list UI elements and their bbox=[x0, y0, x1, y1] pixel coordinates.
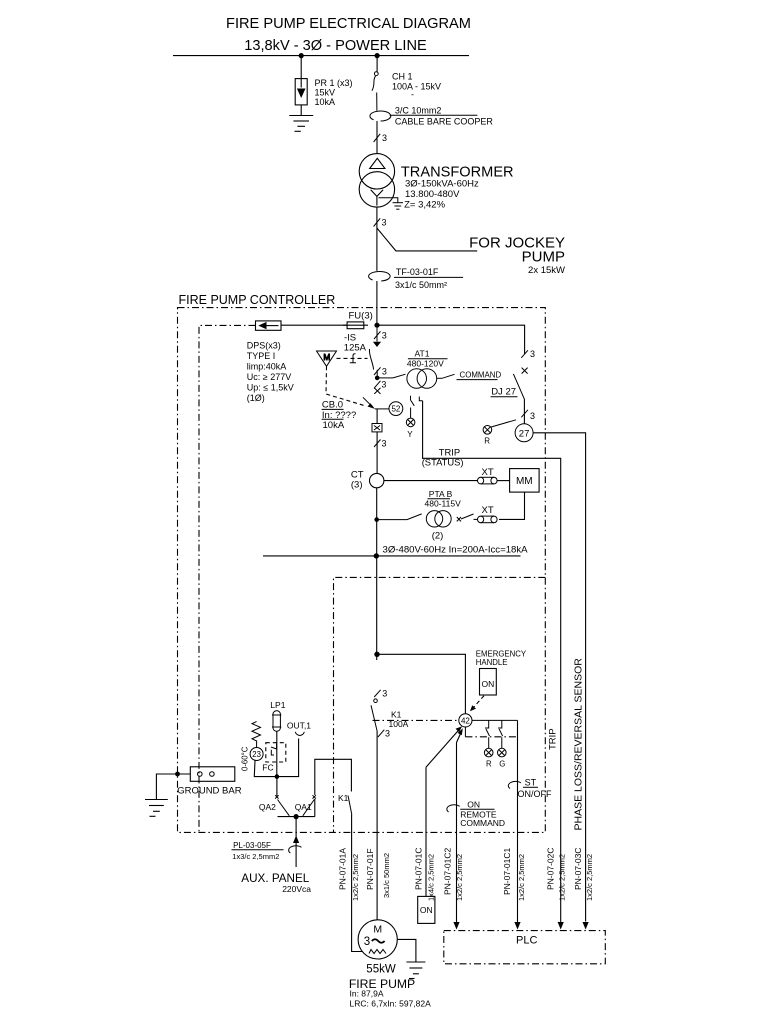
transformer T1 delta-wye bbox=[359, 154, 394, 208]
contact K1 aux bbox=[348, 796, 352, 815]
label: TRANSFORMER specs bbox=[401, 165, 514, 211]
node: PR1 tap junction bbox=[299, 53, 304, 58]
wire: 13.8kV power line bbox=[173, 55, 469, 57]
cable label: PN-07-01F 3x1/c 50mm2 bbox=[365, 848, 391, 898]
cable label: PN-07-01C 1x4/c 2,5mm2 bbox=[414, 847, 436, 901]
wire: jockey pump branch bbox=[377, 228, 477, 251]
label: DPS(x3) TYPE I specs bbox=[247, 341, 294, 404]
node: PTA tap bbox=[374, 517, 379, 522]
trip hook f bbox=[350, 354, 356, 363]
svg-text:52: 52 bbox=[391, 405, 400, 414]
phase tick 3 bbox=[374, 218, 387, 228]
bus 480V bbox=[263, 555, 521, 557]
svg-text:3: 3 bbox=[382, 331, 387, 341]
node: bus junction bbox=[374, 553, 379, 558]
wire: CT to XT bbox=[384, 480, 478, 482]
svg-text:1x2/c 2,5mm2: 1x2/c 2,5mm2 bbox=[351, 854, 360, 901]
svg-text:K1: K1 bbox=[338, 793, 349, 803]
svg-text:220Vca: 220Vca bbox=[282, 884, 311, 894]
svg-text:3: 3 bbox=[385, 729, 390, 739]
disconnect switch CH1 bbox=[372, 72, 378, 111]
svg-text:R: R bbox=[486, 760, 492, 769]
svg-text:PN-07-01C2: PN-07-01C2 bbox=[443, 847, 453, 895]
svg-text:3x1/c 50mm²: 3x1/c 50mm² bbox=[395, 280, 447, 290]
contact QA2 bbox=[275, 795, 289, 816]
svg-text:27: 27 bbox=[519, 428, 530, 439]
label: EMERGENCY HANDLE bbox=[476, 650, 527, 668]
node: CH1 feeder junction bbox=[375, 53, 380, 58]
phase tick 3 (K1) bbox=[374, 689, 387, 699]
svg-text:XT: XT bbox=[482, 467, 494, 478]
svg-text:FU(3): FU(3) bbox=[349, 311, 373, 322]
svg-text:3/C 10mm2: 3/C 10mm2 bbox=[395, 106, 442, 116]
svg-text:CH 1: CH 1 bbox=[392, 72, 413, 82]
label: DJ 27 bbox=[491, 387, 518, 398]
svg-text:ON: ON bbox=[482, 679, 495, 689]
fuse FU(3) bbox=[343, 322, 368, 329]
svg-text:3x1/c 50mm2: 3x1/c 50mm2 bbox=[382, 853, 391, 898]
svg-text:QA2: QA2 bbox=[259, 802, 276, 812]
wire+blade: AT1 secondary to COMMAND bbox=[437, 374, 498, 379]
svg-text:3: 3 bbox=[382, 133, 387, 143]
svg-text:FIRE PUMP CONTROLLER: FIRE PUMP CONTROLLER bbox=[179, 293, 336, 307]
svg-text:1x2/c 2,5mm2: 1x2/c 2,5mm2 bbox=[517, 854, 526, 901]
svg-text:(3): (3) bbox=[351, 480, 363, 491]
relay 52 bbox=[382, 402, 403, 416]
svg-text:ST: ST bbox=[525, 777, 537, 787]
contact bracket + TRIP status line bbox=[419, 397, 422, 401]
mech linkage dashed to CB.0 bbox=[326, 366, 364, 405]
arrow: line F into PLC bbox=[558, 922, 564, 930]
svg-text:PN-07-01C1: PN-07-01C1 bbox=[502, 847, 512, 895]
wire: aux panel feed bbox=[295, 817, 297, 867]
mech linkage dashed to -IS with trip hook bbox=[337, 357, 368, 359]
svg-text:3Ø-480V-60Hz In=200A-Icc=18kA: 3Ø-480V-60Hz In=200A-Icc=18kA bbox=[383, 545, 529, 556]
wire: ST line to PLC bbox=[517, 720, 519, 928]
label: 3/C 10mm2 CABLE BARE COOPER bbox=[390, 106, 494, 127]
label: FOR JOCKEY PUMP 2x 15kW bbox=[469, 235, 565, 277]
cable label: PN-07-01C2 1x2/c 2,5mm2 bbox=[443, 847, 464, 901]
wire: MM bottom to PTA circuit bbox=[499, 492, 525, 519]
contact QA1 bbox=[303, 795, 316, 816]
emergency handle ON box bbox=[480, 669, 497, 696]
label: TRIP (STATUS) bbox=[422, 446, 464, 467]
svg-text:PL-03-05F: PL-03-05F bbox=[233, 841, 271, 850]
terminal arc OUT1 bbox=[295, 732, 304, 736]
svg-text:15kV: 15kV bbox=[315, 88, 336, 98]
label: PTA B 480-115V (2) bbox=[425, 489, 462, 542]
svg-text:PHASE LOSS/REVERSAL SENSOR: PHASE LOSS/REVERSAL SENSOR bbox=[573, 658, 585, 831]
mech interlock dash-dot K1 to 42 bbox=[373, 719, 459, 721]
wire: 42 aux rail bbox=[472, 719, 518, 721]
label: AUX. PANEL 220Vca bbox=[241, 872, 311, 894]
ground bar box bbox=[190, 767, 235, 782]
breaker blade DJ27 bbox=[513, 374, 524, 399]
svg-text:1x2/c 2,5mm2: 1x2/c 2,5mm2 bbox=[558, 854, 567, 901]
fuse LP1 bbox=[272, 711, 281, 731]
phase tick 3 (DJ27) bbox=[521, 349, 535, 359]
svg-text:OUT,1: OUT,1 bbox=[287, 721, 311, 731]
svg-text:ON: ON bbox=[467, 799, 480, 809]
transformer PTA B 480-115V bbox=[426, 511, 451, 527]
node: QA rail junction bbox=[294, 814, 299, 819]
wire: transformer to controller bbox=[376, 207, 378, 271]
contact X: DJ27 bbox=[522, 368, 528, 374]
cable label: PN-07-01A 1x2/c 2,5mm2 bbox=[337, 848, 360, 901]
node: K1 feeder junction bbox=[374, 652, 379, 657]
svg-text:13.800-480V: 13.800-480V bbox=[405, 189, 460, 200]
svg-text:10kA: 10kA bbox=[323, 420, 345, 431]
node: FU junction on main bbox=[374, 323, 379, 328]
cable label: PN-07-01C1 1x2/c 2,5mm2 bbox=[502, 847, 526, 901]
wire: K1 coil rail bbox=[315, 759, 352, 816]
svg-text:PN-07-01C: PN-07-01C bbox=[414, 847, 424, 890]
cable label: PN-07-03C 1x2/c 2,5mm2 bbox=[573, 847, 594, 901]
surge arrester PR1 (x3) bbox=[295, 79, 307, 105]
node: AT1 tap bbox=[375, 376, 380, 381]
svg-text:10kA: 10kA bbox=[315, 97, 336, 107]
svg-text:ON: ON bbox=[420, 905, 433, 915]
svg-text:M: M bbox=[373, 924, 382, 936]
svg-text:3: 3 bbox=[364, 936, 370, 948]
x-tick + blade: PTA secondary bbox=[457, 514, 478, 521]
label: K1 100A bbox=[389, 710, 409, 730]
svg-text:1x2/c 2,5mm2: 1x2/c 2,5mm2 bbox=[585, 854, 594, 901]
terminal XT (metering) bbox=[478, 477, 498, 484]
surge protector DPS(x3) bbox=[256, 321, 282, 330]
PLC box (dash-dot) bbox=[444, 931, 606, 964]
arrow: up from aux panel bbox=[293, 836, 299, 844]
terminal XT (PTA) bbox=[478, 516, 498, 523]
svg-text:limp:40kA: limp:40kA bbox=[247, 362, 287, 372]
mech dash-dot under 42 bbox=[464, 727, 466, 737]
phase tick 3 bbox=[374, 439, 387, 449]
svg-text:PN-07-02C: PN-07-02C bbox=[545, 847, 555, 890]
wire: into controller bbox=[376, 281, 378, 325]
svg-text:(2): (2) bbox=[432, 531, 444, 542]
phase tick 3 bbox=[374, 331, 387, 341]
svg-text:125A: 125A bbox=[344, 343, 367, 354]
svg-text:AT1: AT1 bbox=[415, 349, 430, 359]
wire: main to motor bbox=[376, 731, 378, 920]
wire+blade: AT1 primary bbox=[377, 374, 405, 378]
heater element (zigzag) bbox=[252, 722, 261, 748]
cable mark on ST line bbox=[508, 781, 521, 788]
svg-text:COMMAND: COMMAND bbox=[460, 818, 505, 828]
dashed link: handle to 42 bbox=[470, 696, 484, 712]
svg-text:PUMP: PUMP bbox=[522, 249, 565, 266]
svg-text:XT: XT bbox=[482, 505, 494, 516]
svg-text:3: 3 bbox=[530, 411, 535, 421]
controller enclosure box (dash-dot) bbox=[178, 308, 546, 833]
arrow: line D into PLC bbox=[453, 922, 459, 930]
contactor K1 100A bbox=[371, 699, 377, 731]
wire: CT to bus bbox=[376, 488, 378, 660]
cable mark on aux line bbox=[289, 846, 302, 853]
svg-text:3: 3 bbox=[382, 439, 387, 449]
svg-text:1x2/c 2,5mm2: 1x2/c 2,5mm2 bbox=[455, 854, 464, 901]
svg-text:0-60°C: 0-60°C bbox=[241, 746, 250, 771]
svg-text:R: R bbox=[484, 437, 490, 446]
wire: trip unit to CT bbox=[376, 409, 378, 424]
svg-text:MM: MM bbox=[516, 476, 533, 487]
trip unit box on main bbox=[372, 424, 382, 432]
ground: transformer neutral bbox=[379, 198, 404, 209]
wire: QA rail bbox=[278, 816, 315, 818]
wire+blade: PTA primary bbox=[377, 514, 422, 520]
wire: DJ27 to relay 27 bbox=[523, 399, 525, 424]
aux contact drops + lamps R G bbox=[484, 720, 506, 756]
svg-text:3Ø-150kVA-60Hz: 3Ø-150kVA-60Hz bbox=[405, 178, 479, 189]
svg-text:FC: FC bbox=[262, 763, 273, 773]
svg-text:LP1: LP1 bbox=[270, 700, 285, 710]
phase tick 3 bbox=[378, 729, 390, 739]
phase tick 3 bbox=[374, 367, 387, 377]
relay 42 bbox=[459, 714, 472, 727]
motor M 3~ fire pump bbox=[358, 920, 397, 959]
wire: main drop to CH1 bbox=[376, 56, 378, 72]
label: 55kW FIRE PUMP ratings bbox=[349, 964, 431, 1009]
svg-text:PTA B: PTA B bbox=[429, 489, 453, 499]
contact X: CB.0 upper bbox=[374, 388, 380, 394]
svg-text:G: G bbox=[499, 760, 505, 769]
svg-text:PLC: PLC bbox=[516, 935, 537, 947]
svg-text:GROUND BAR: GROUND BAR bbox=[177, 786, 242, 797]
svg-text:COMMAND: COMMAND bbox=[460, 371, 502, 380]
ground: PR1 earth bbox=[289, 116, 313, 132]
label: -IS 125A bbox=[344, 333, 367, 354]
breaker blade CB.0 with arrow bbox=[363, 397, 382, 409]
svg-text:2x 15kW: 2x 15kW bbox=[528, 265, 565, 276]
flow contact FC dashed box bbox=[266, 743, 286, 762]
cable symbol: TF-03-01F bbox=[369, 271, 391, 281]
svg-text:23: 23 bbox=[252, 750, 261, 759]
thermostat 23 bbox=[250, 748, 263, 761]
wire: XT to MM bbox=[497, 480, 510, 482]
svg-text:CABLE BARE COOPER: CABLE BARE COOPER bbox=[395, 116, 494, 126]
svg-text:M: M bbox=[323, 353, 330, 362]
svg-text:TRIP: TRIP bbox=[548, 728, 559, 750]
wire: K1 aux down to motor heater bbox=[352, 815, 363, 952]
arrow: line E into PLC bbox=[514, 922, 520, 930]
svg-text:480-115V: 480-115V bbox=[425, 499, 462, 509]
svg-text:Z= 3,42%: Z= 3,42% bbox=[404, 200, 445, 211]
aux contact + lamp Y bbox=[406, 396, 415, 427]
label: TF-03-01F 3x1/c 50mm2 bbox=[394, 267, 463, 290]
cable label: PN-07-02C 1x2/c 2,5mm2 bbox=[545, 847, 566, 901]
wire: DPS to FU bbox=[281, 324, 347, 326]
label: PL-03-05F 1x3/c 2,5mm2 bbox=[232, 841, 284, 861]
inner boundary (dash-dot L) bbox=[199, 325, 256, 832]
svg-text:(1Ø): (1Ø) bbox=[247, 393, 265, 403]
isolator -IS bbox=[369, 328, 381, 376]
power section box (dash-dot) bbox=[334, 577, 546, 832]
wire: junction to relay 42 bbox=[377, 654, 465, 714]
wire: PLC command line D to 42 (arrow) bbox=[457, 728, 463, 928]
cable symbol: 3/C 10mm2 bbox=[370, 111, 391, 121]
svg-text:3: 3 bbox=[382, 367, 387, 377]
motor operator M triangle bbox=[317, 351, 337, 366]
cable mark on remote line bbox=[447, 805, 460, 812]
svg-text:PN-07-03C: PN-07-03C bbox=[573, 847, 583, 890]
svg-text:PN-07-01F: PN-07-01F bbox=[365, 848, 375, 890]
svg-text:Y: Y bbox=[407, 430, 413, 439]
svg-text:DPS(x3): DPS(x3) bbox=[247, 341, 281, 351]
wire: PR1 to ground bbox=[300, 105, 302, 116]
meter MM box bbox=[510, 469, 539, 493]
wire: rail to QA2 bbox=[276, 777, 278, 797]
phase tick 3 bbox=[374, 380, 386, 390]
svg-text:3: 3 bbox=[530, 349, 535, 359]
wire: node to DJ27 branch bbox=[377, 325, 525, 354]
wire: 27 output to sensor line bbox=[533, 433, 586, 922]
node: on enclosure edge bbox=[175, 772, 180, 777]
lamp R (27) bbox=[483, 420, 516, 434]
wire: 23 to rail bbox=[254, 739, 298, 777]
svg-text:(STATUS): (STATUS) bbox=[422, 456, 464, 467]
svg-text:TYPE I: TYPE I bbox=[247, 351, 276, 361]
wire: remote command line to 42 (arrow) bbox=[426, 726, 462, 896]
wire+ground: motor frame earth bbox=[397, 939, 425, 978]
svg-text:-: - bbox=[411, 90, 414, 100]
svg-text:Up: ≤ 1,5kV: Up: ≤ 1,5kV bbox=[247, 383, 294, 393]
label: ST ON/OFF bbox=[518, 777, 552, 799]
svg-text:K1: K1 bbox=[391, 710, 402, 720]
phase tick 3 bbox=[374, 133, 387, 143]
svg-text:ON/OFF: ON/OFF bbox=[518, 789, 552, 799]
transformer AT1 480-120V bbox=[407, 369, 437, 389]
svg-text:QA1: QA1 bbox=[295, 802, 312, 812]
remote ON box bbox=[418, 896, 435, 923]
svg-text:3: 3 bbox=[381, 380, 386, 390]
svg-text:PN-07-01A: PN-07-01A bbox=[337, 848, 347, 890]
svg-text:55kW: 55kW bbox=[366, 964, 396, 976]
svg-text:1x4/c 2,5mm2: 1x4/c 2,5mm2 bbox=[426, 854, 435, 901]
svg-text:100A - 15kV: 100A - 15kV bbox=[392, 82, 441, 92]
label: ON REMOTE COMMAND bbox=[460, 799, 505, 828]
wire: cable to transformer bbox=[376, 121, 378, 154]
phase tick 3 bbox=[521, 410, 535, 421]
wire: LP1 through FC down bbox=[276, 731, 278, 776]
svg-text:1x3/c 2,5mm2: 1x3/c 2,5mm2 bbox=[232, 852, 279, 861]
svg-text:42: 42 bbox=[461, 717, 470, 726]
arrow: line G into PLC bbox=[583, 922, 589, 930]
label: CH 1 100A - 15kV bbox=[392, 72, 441, 100]
label: R G bbox=[486, 760, 505, 769]
svg-text:LRC: 6,7xIn: 597,82A: LRC: 6,7xIn: 597,82A bbox=[350, 999, 432, 1009]
svg-text:HANDLE: HANDLE bbox=[476, 658, 508, 667]
svg-text:FIRE PUMP ELECTRICAL DIAGRAM: FIRE PUMP ELECTRICAL DIAGRAM bbox=[226, 16, 471, 32]
wire: drop to PR1 bbox=[300, 56, 302, 79]
relay 27 phase loss bbox=[515, 424, 533, 442]
svg-text:TF-03-01F: TF-03-01F bbox=[396, 267, 439, 277]
svg-text:480-120V: 480-120V bbox=[407, 359, 444, 369]
svg-text:Uc: ≥ 277V: Uc: ≥ 277V bbox=[247, 372, 291, 382]
node: control rail junction bbox=[275, 774, 280, 779]
label: CB.0 In: ???? 10kA bbox=[322, 400, 357, 432]
svg-text:In: 87,9A: In: 87,9A bbox=[350, 989, 384, 999]
svg-text:PR 1 (x3): PR 1 (x3) bbox=[315, 78, 353, 88]
label: PR 1 (x3) 15kV 10kA bbox=[315, 78, 353, 107]
svg-text:3: 3 bbox=[382, 218, 387, 228]
svg-text:DJ 27: DJ 27 bbox=[491, 387, 516, 398]
svg-text:13,8kV - 3Ø - POWER LINE: 13,8kV - 3Ø - POWER LINE bbox=[244, 38, 427, 54]
svg-text:3: 3 bbox=[382, 689, 387, 699]
wire: ground bar to earth bbox=[156, 774, 190, 800]
current transformer CT (3) bbox=[351, 470, 384, 491]
label: AT1 480-120V bbox=[407, 349, 448, 369]
ground: main earth bbox=[145, 800, 168, 817]
